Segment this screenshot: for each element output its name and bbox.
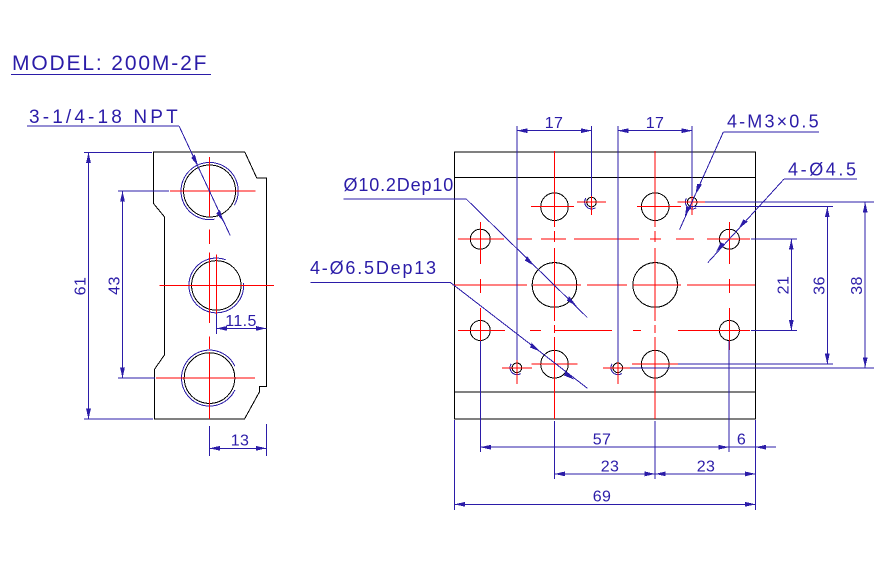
svg-text:4-M3×0.5: 4-M3×0.5 bbox=[727, 112, 821, 132]
ext 36 bottom bbox=[678, 363, 833, 365]
dimension 11.5 bbox=[217, 313, 267, 334]
leader M3 arrow 2 bbox=[682, 205, 691, 218]
leader Ø4.5 arrow 2 bbox=[714, 241, 726, 253]
svg-text:57: 57 bbox=[593, 432, 612, 449]
leader M3 arrow 1 bbox=[693, 182, 702, 195]
ext c7 bbox=[691, 126, 693, 196]
centerline hole 2 vertical bbox=[215, 255, 217, 314]
port hole 1 (top, 1/4-18 NPT) bbox=[184, 165, 236, 217]
column c5 vertical bbox=[617, 352, 619, 384]
ext right edge bottom bbox=[755, 420, 757, 510]
corner hole top-left (Ø4.5) bbox=[470, 229, 490, 249]
svg-text:69: 69 bbox=[593, 489, 612, 506]
dimension 23 (right) bbox=[655, 458, 755, 475]
dimension 36 bbox=[811, 207, 828, 365]
row r2 horizontals (medium top) bbox=[531, 206, 574, 208]
leader Ø10.2 arrow 2 bbox=[566, 296, 578, 308]
svg-text:21: 21 bbox=[775, 276, 792, 295]
ext c3 bottom bbox=[554, 421, 556, 479]
ext c6 bottom bbox=[654, 421, 656, 479]
svg-text:23: 23 bbox=[697, 458, 716, 475]
dimension 23 (left) bbox=[555, 458, 656, 475]
centerline hole 1 horizontal bbox=[170, 190, 256, 192]
centerline column vertical (left view) bbox=[209, 157, 211, 419]
M3 hole bottom-left bbox=[512, 363, 522, 373]
label 4-Ø4.5 bbox=[708, 160, 859, 263]
ext c8 bottom bbox=[728, 341, 730, 452]
leader Ø6.5 arrow 1 bbox=[529, 343, 541, 354]
svg-text:3-1/4-18 NPT: 3-1/4-18 NPT bbox=[29, 107, 181, 128]
ext 38 bottom bbox=[630, 367, 874, 369]
ext c4 bbox=[591, 126, 593, 196]
corner hole bottom-left (Ø4.5) bbox=[470, 321, 490, 341]
ext c2 bbox=[516, 126, 518, 360]
row r7 horizontals (M3 bottom) bbox=[502, 367, 532, 369]
dimension 69 bbox=[455, 489, 756, 506]
svg-text:17: 17 bbox=[545, 115, 564, 132]
column c8 vertical bbox=[728, 222, 730, 264]
dimension 57 bbox=[480, 432, 729, 449]
svg-text:13: 13 bbox=[231, 433, 250, 450]
ext 21 bottom bbox=[751, 330, 797, 332]
dimension 61 bbox=[73, 152, 154, 419]
big hole right (Ø10.2) bbox=[633, 263, 678, 308]
corner hole bottom-right (Ø4.5) bbox=[719, 321, 739, 341]
leader Ø10.2 arrow 1 bbox=[524, 256, 536, 268]
row r4 horizontal (big) bbox=[453, 284, 528, 286]
dimension 43 bbox=[107, 191, 170, 378]
svg-text:61: 61 bbox=[73, 277, 90, 296]
svg-text:36: 36 bbox=[811, 276, 828, 295]
thread arc hole 1 bbox=[181, 162, 238, 219]
svg-text:6: 6 bbox=[737, 432, 746, 449]
dimension 21 bbox=[775, 239, 792, 330]
corner hole top-right (Ø4.5) bbox=[719, 229, 739, 249]
svg-text:17: 17 bbox=[646, 115, 665, 132]
ext left edge bottom bbox=[454, 420, 456, 510]
title MODEL: 200M-2F bbox=[11, 52, 211, 75]
svg-text:4-Ø6.5Dep13: 4-Ø6.5Dep13 bbox=[310, 258, 438, 278]
svg-text:MODEL: 200M-2F: MODEL: 200M-2F bbox=[12, 52, 208, 75]
row r3 horizontals (corner top) bbox=[458, 238, 504, 240]
M3 hole top-left bbox=[587, 197, 597, 207]
dimension 38 bbox=[849, 202, 866, 368]
medium hole top-left (Ø6.5) bbox=[541, 193, 569, 221]
svg-text:43: 43 bbox=[107, 276, 124, 295]
big hole left (Ø10.2) bbox=[532, 263, 577, 308]
port hole 3 (bottom) bbox=[184, 353, 235, 404]
plate top band line bbox=[455, 177, 756, 179]
leader NPT arrow 2 bbox=[216, 210, 225, 223]
dimension 17 (left pair) bbox=[517, 115, 592, 132]
blue extension lines right view bbox=[455, 126, 875, 510]
leader NPT arrow 1 bbox=[190, 154, 199, 167]
centerline hole 2 horizontal bbox=[159, 284, 273, 286]
column c3 vertical bbox=[554, 151, 556, 227]
leader Ø4.5 arrow 1 bbox=[736, 218, 748, 230]
svg-text:4-Ø4.5: 4-Ø4.5 bbox=[788, 160, 859, 180]
leader NPT bbox=[179, 126, 230, 236]
leader Ø6.5 arrow 2 bbox=[563, 371, 575, 382]
svg-text:Ø10.2Dep10: Ø10.2Dep10 bbox=[344, 175, 455, 195]
thread arc hole 2 bbox=[189, 258, 244, 313]
svg-text:11.5: 11.5 bbox=[225, 313, 257, 330]
centerline hole 3 horizontal bbox=[156, 377, 255, 379]
plate outline (left view) bbox=[153, 152, 266, 419]
plate outline (right view) bbox=[455, 152, 756, 419]
row r5 horizontals (corner bottom) bbox=[458, 330, 505, 332]
dimension 17 (right pair) bbox=[618, 115, 692, 132]
column c1 vertical bbox=[479, 222, 481, 264]
port hole 2 (middle) bbox=[192, 261, 241, 310]
label 3-1/4-18 NPT bbox=[27, 107, 181, 128]
thread arc hole 3 bbox=[182, 350, 235, 406]
label 4-M3x0.5 bbox=[680, 112, 821, 230]
svg-text:23: 23 bbox=[601, 458, 620, 475]
row r1 horizontals (M3 top) bbox=[577, 201, 606, 203]
medium hole top-right (Ø6.5) bbox=[641, 193, 669, 221]
dimension 13 bbox=[209, 424, 266, 456]
M3 hole top-right bbox=[687, 197, 697, 207]
column c6 vertical bbox=[654, 151, 656, 227]
plate bottom band line bbox=[455, 391, 756, 393]
label Ø10.2Dep10 bbox=[344, 175, 588, 318]
medium hole bottom-left (Ø6.5) bbox=[541, 350, 569, 378]
column c2 vertical bbox=[516, 352, 518, 384]
svg-text:38: 38 bbox=[849, 276, 866, 295]
M3 hole bottom-right bbox=[613, 363, 623, 373]
row r6 horizontals (medium bottom) bbox=[532, 363, 578, 365]
red centerlines right view bbox=[453, 151, 756, 419]
ext 38 top bbox=[705, 201, 874, 203]
dimension 6 bbox=[729, 432, 776, 449]
ext c5 bbox=[617, 126, 619, 362]
ext 36 top bbox=[690, 206, 833, 208]
label 4-Ø6.5Dep13 bbox=[310, 258, 587, 388]
column c4 vertical bbox=[591, 190, 593, 215]
column c7 vertical bbox=[691, 190, 693, 215]
medium hole bottom-right (Ø6.5) bbox=[641, 350, 669, 378]
ext c1 bottom bbox=[479, 341, 481, 452]
ext 21 top bbox=[751, 238, 797, 240]
